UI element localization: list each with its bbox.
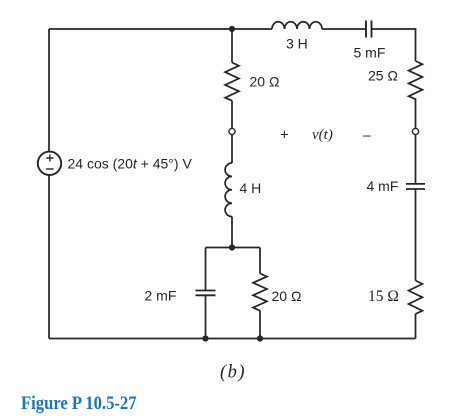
svg-text:5 mF: 5 mF: [354, 45, 386, 61]
wire top right: from 3H inductor end toward 5mF cap: [232, 28, 366, 30]
node D (bottom right junction dot): [257, 335, 263, 341]
terminal node (open circle, - side of v(t)): [412, 128, 418, 134]
wire below 2mF cap to bottom wire: [205, 295, 207, 338]
label v(t): [312, 127, 333, 143]
svg-text:25 Ω: 25 Ω: [368, 68, 398, 84]
terminal node (open circle, + side of v(t)): [229, 128, 235, 134]
label 5 mF: [354, 45, 386, 61]
svg-text:4 mF: 4 mF: [367, 178, 399, 194]
svg-text:(b): (b): [220, 363, 246, 383]
label (b): [220, 363, 246, 383]
resistor R2 20 ohm (bottom): [253, 274, 267, 311]
label 25 ohm: [368, 68, 398, 84]
svg-text:Figure P 10.5-27: Figure P 10.5-27: [21, 392, 137, 413]
svg-text:3 H: 3 H: [286, 36, 308, 52]
capacitor C1 5 mF: [366, 21, 372, 38]
wire middle: resistor to terminal circle: [231, 101, 233, 129]
label 24 cos (20t + 45) V: [68, 155, 193, 171]
svg-text:20 Ω: 20 Ω: [272, 288, 302, 304]
wire bottom rail: [49, 338, 416, 340]
resistor R3 25 ohm (right): [409, 61, 423, 99]
inductor L2 4 H: [225, 163, 232, 217]
node A (top junction dot): [229, 26, 235, 32]
node C (bottom left junction dot): [202, 335, 208, 341]
wire middle: 4H to bottom node: [231, 217, 233, 248]
resistor R1 20 ohm (middle): [225, 63, 239, 101]
wire below bottom 20 ohm to bottom wire: [259, 311, 261, 339]
capacitor C2 2 mF: [196, 291, 216, 296]
wire right leg down to 20 ohm resistor: [259, 248, 261, 274]
wire right: 15 ohm to bottom: [415, 314, 417, 339]
svg-text:v(t): v(t): [312, 127, 333, 143]
wire left side above source: [48, 29, 50, 152]
capacitor C3 4 mF: [406, 184, 425, 189]
label 2 mF: [145, 288, 177, 304]
label 4 mF: [367, 178, 399, 194]
label 4 H: [240, 180, 262, 196]
node v(t) plus sign: [280, 127, 289, 144]
wire right: 4mF to 15 ohm resistor: [415, 189, 417, 281]
svg-text:2 mF: 2 mF: [145, 288, 177, 304]
wire left side below source: [48, 175, 50, 339]
voltage source V1: 24 cos(20t+45): [38, 152, 61, 175]
svg-text:4 H: 4 H: [240, 180, 262, 196]
wire top left: from left top corner to center node: [49, 28, 232, 30]
wire left leg down to 2mF cap: [205, 248, 207, 291]
wire right: resistor to terminal circle: [415, 98, 417, 128]
label 3 H: [286, 36, 308, 52]
wire parallel section top rail: [206, 247, 261, 249]
inductor L1 3 H: [272, 22, 322, 29]
svg-text:–: –: [363, 127, 371, 143]
svg-text:20 Ω: 20 Ω: [250, 74, 280, 90]
label 20 ohm (bottom): [272, 288, 302, 304]
node B (junction of parallel section): [229, 244, 235, 250]
svg-text:15 Ω: 15 Ω: [368, 288, 399, 305]
resistor R4 15 ohm (right): [409, 281, 423, 314]
label 20 ohm: [250, 74, 280, 90]
wire right top corner down to 25 ohm resistor: [372, 29, 416, 61]
svg-text:+: +: [280, 127, 289, 144]
wire middle: terminal to 4H inductor: [231, 135, 233, 163]
wire middle branch: node to 20 ohm resistor: [231, 29, 233, 63]
label Figure P 10.5-27: [21, 392, 137, 413]
node v(t) minus sign: [363, 127, 371, 143]
label 15 ohm: [368, 288, 399, 305]
svg-text:24 cos (20t + 45°) V: 24 cos (20t + 45°) V: [68, 155, 193, 171]
wire right: terminal to 4mF cap: [415, 135, 417, 184]
